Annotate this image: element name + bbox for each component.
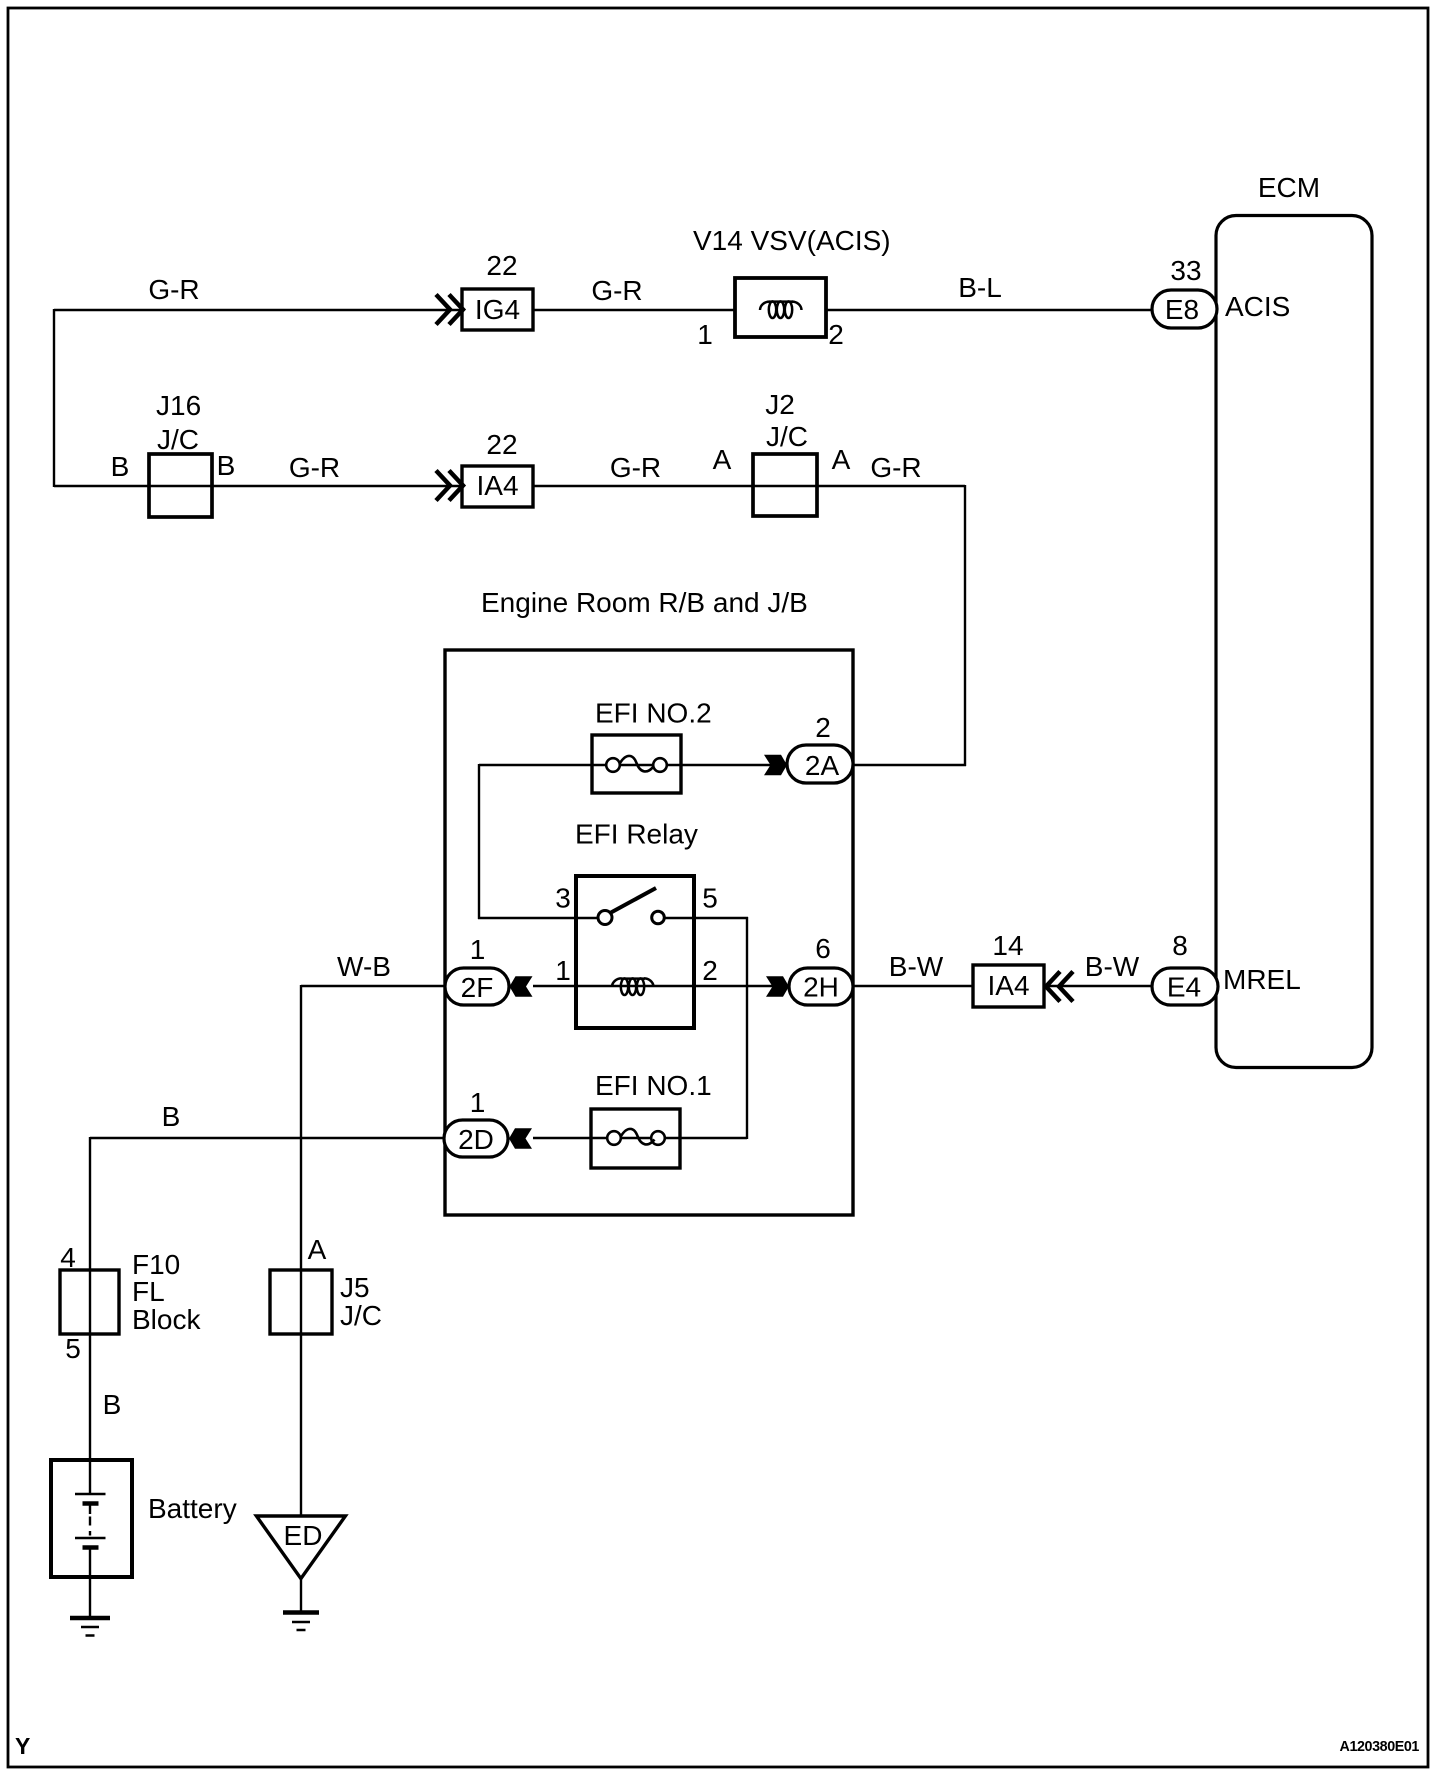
svg-text:EFI NO.2: EFI NO.2 bbox=[595, 698, 712, 729]
svg-text:G-R: G-R bbox=[591, 275, 642, 306]
ground below battery bbox=[70, 1618, 110, 1636]
relay coil bbox=[612, 978, 654, 995]
svg-text:1: 1 bbox=[555, 955, 571, 986]
svg-text:B: B bbox=[103, 1389, 122, 1420]
svg-text:Y: Y bbox=[15, 1733, 30, 1759]
solenoid V14 VSV(ACIS) box bbox=[735, 278, 826, 337]
svg-text:2D: 2D bbox=[458, 1124, 494, 1155]
relay contact right bbox=[652, 911, 665, 924]
wire left riser between top rows bbox=[53, 309, 55, 487]
wire G-R top row from left riser to IG4 bbox=[54, 309, 462, 311]
svg-text:EFI NO.1: EFI NO.1 bbox=[595, 1070, 712, 1101]
wire relay pin 5 out bbox=[664, 917, 748, 919]
wire into relay pin 3 bbox=[478, 917, 598, 919]
relay switch lever bbox=[611, 888, 656, 913]
ground triangle ED bbox=[256, 1516, 345, 1579]
junction J16 J/C box bbox=[149, 454, 212, 517]
connector IA4 (14) box right bbox=[973, 965, 1044, 1007]
wire EFI NO.1 fuse row bbox=[533, 1137, 747, 1139]
battery internal wire bottom bbox=[89, 1548, 91, 1619]
wire 2A to riser bbox=[850, 764, 966, 766]
ground below ED bbox=[283, 1613, 319, 1631]
svg-text:B-L: B-L bbox=[958, 272, 1002, 303]
svg-text:2H: 2H bbox=[803, 972, 839, 1003]
svg-text:2: 2 bbox=[828, 319, 844, 350]
svg-text:V14 VSV(ACIS): V14 VSV(ACIS) bbox=[693, 225, 891, 256]
svg-text:1: 1 bbox=[470, 934, 486, 965]
svg-text:8: 8 bbox=[1172, 930, 1188, 961]
arrow into 2F bbox=[510, 976, 533, 997]
svg-text:E8: E8 bbox=[1165, 294, 1199, 325]
wire W-B 2F to J5 riser bbox=[301, 985, 445, 987]
wire riser through F10 to battery bbox=[89, 1137, 91, 1460]
svg-text:J/C: J/C bbox=[157, 424, 199, 455]
chevron arrows out of IA4 bbox=[1046, 972, 1073, 1002]
svg-text:J/C: J/C bbox=[340, 1300, 382, 1331]
connector 2F oval pin 1 bbox=[445, 968, 509, 1005]
svg-text:4: 4 bbox=[60, 1242, 76, 1273]
svg-text:J16: J16 bbox=[156, 390, 201, 421]
svg-text:ACIS: ACIS bbox=[1225, 291, 1290, 322]
svg-text:A120380E01: A120380E01 bbox=[1340, 1739, 1420, 1755]
svg-text:A: A bbox=[308, 1234, 327, 1265]
wire row2 from riser through J16 to IA4 bbox=[54, 485, 462, 487]
connector E8 oval pin 33 bbox=[1152, 290, 1217, 328]
svg-text:33: 33 bbox=[1170, 255, 1201, 286]
svg-text:ECM: ECM bbox=[1258, 172, 1320, 203]
svg-text:22: 22 bbox=[486, 250, 517, 281]
chevron arrows into IA4 bbox=[436, 471, 463, 501]
svg-text:A: A bbox=[713, 444, 732, 475]
wire B 2D to F10 riser bbox=[90, 1137, 445, 1139]
fuse EFI NO.2 element bbox=[606, 756, 667, 772]
svg-text:G-R: G-R bbox=[870, 452, 921, 483]
svg-text:E4: E4 bbox=[1167, 972, 1201, 1003]
svg-text:J5: J5 bbox=[340, 1272, 370, 1303]
svg-text:B-W: B-W bbox=[889, 951, 944, 982]
svg-text:22: 22 bbox=[486, 429, 517, 460]
wire riser through J5 to ED bbox=[300, 985, 302, 1516]
wire riser pin5 down to EFI NO.1 row bbox=[746, 917, 748, 1139]
connector IA4 (22) box row2 bbox=[462, 466, 533, 507]
battery internal wire top bbox=[89, 1460, 91, 1494]
battery cell 2 short plate bbox=[83, 1545, 99, 1550]
connector E4 oval pin 8 bbox=[1152, 968, 1218, 1005]
Engine Room R/B and J/B box bbox=[445, 650, 853, 1215]
wire IA4 to E4 B-W bbox=[1044, 985, 1152, 987]
battery cell 2 long plate bbox=[75, 1537, 106, 1539]
svg-text:Battery: Battery bbox=[148, 1493, 237, 1524]
svg-text:3: 3 bbox=[555, 883, 571, 914]
svg-text:B: B bbox=[217, 450, 236, 481]
svg-text:B: B bbox=[162, 1101, 181, 1132]
svg-text:B: B bbox=[111, 451, 130, 482]
wire IG4 to VSV bbox=[533, 309, 735, 311]
battery box bbox=[51, 1460, 132, 1577]
svg-text:W-B: W-B bbox=[337, 951, 391, 982]
svg-text:Block: Block bbox=[132, 1304, 201, 1335]
svg-text:EFI Relay: EFI Relay bbox=[575, 819, 698, 850]
wire 2H to IA4 B-W bbox=[850, 985, 973, 987]
junction J2 J/C box bbox=[753, 454, 817, 516]
svg-text:IA4: IA4 bbox=[987, 970, 1029, 1001]
svg-text:6: 6 bbox=[815, 933, 831, 964]
junction J5 J/C box bbox=[270, 1270, 332, 1334]
svg-text:2A: 2A bbox=[805, 750, 840, 781]
arrow into 2H bbox=[766, 976, 789, 997]
chevron arrows into IG4 bbox=[436, 295, 463, 325]
arrow into 2D bbox=[509, 1128, 532, 1149]
wire B-L VSV to E8 bbox=[826, 309, 1152, 311]
VSV coil bbox=[760, 301, 802, 318]
fuse EFI NO.1 box bbox=[591, 1109, 680, 1168]
fuse EFI NO.1 element bbox=[607, 1129, 665, 1145]
battery cell 1 long plate bbox=[75, 1493, 106, 1495]
connector 2H oval pin 6 bbox=[789, 968, 853, 1005]
svg-text:Engine Room R/B and J/B: Engine Room R/B and J/B bbox=[481, 587, 808, 618]
svg-text:G-R: G-R bbox=[610, 452, 661, 483]
svg-text:G-R: G-R bbox=[289, 452, 340, 483]
svg-text:FL: FL bbox=[132, 1276, 165, 1307]
wire riser G-R down to 2A row bbox=[964, 485, 966, 766]
svg-text:1: 1 bbox=[470, 1087, 486, 1118]
svg-text:IA4: IA4 bbox=[476, 470, 518, 501]
wire IA4 through J2 toward riser bbox=[532, 485, 965, 487]
battery dashed link bbox=[89, 1517, 91, 1536]
connector IG4 (22) box bbox=[462, 289, 533, 330]
svg-text:2: 2 bbox=[702, 955, 718, 986]
svg-text:1: 1 bbox=[697, 319, 713, 350]
relay EFI Relay box bbox=[576, 876, 694, 1028]
svg-text:B-W: B-W bbox=[1085, 951, 1140, 982]
wire EFI NO.2 fuse row bbox=[479, 764, 787, 766]
svg-text:5: 5 bbox=[702, 883, 718, 914]
svg-text:14: 14 bbox=[992, 930, 1023, 961]
connector 2D oval pin 1 bbox=[444, 1120, 508, 1157]
relay contact left bbox=[598, 911, 612, 925]
svg-text:G-R: G-R bbox=[148, 274, 199, 305]
svg-text:MREL: MREL bbox=[1223, 964, 1301, 995]
svg-text:IG4: IG4 bbox=[475, 294, 520, 325]
svg-text:J2: J2 bbox=[765, 389, 795, 420]
svg-text:ED: ED bbox=[284, 1520, 323, 1551]
battery cell stub bbox=[89, 1504, 91, 1515]
svg-text:J/C: J/C bbox=[766, 421, 808, 452]
fuse block F10 box bbox=[60, 1270, 119, 1334]
wire riser fuse2 to relay pin 3 bbox=[478, 764, 480, 919]
ECM U1 box bbox=[1216, 216, 1372, 1068]
wire relay coil row pin1-pin2 bbox=[533, 985, 787, 987]
svg-text:5: 5 bbox=[65, 1333, 81, 1364]
arrow into 2A bbox=[764, 755, 787, 776]
svg-text:2: 2 bbox=[815, 712, 831, 743]
fuse EFI NO.2 box bbox=[592, 735, 681, 793]
wire ED to ground bbox=[300, 1578, 302, 1613]
battery cell 1 short plate bbox=[83, 1501, 99, 1506]
svg-text:A: A bbox=[832, 444, 851, 475]
svg-text:2F: 2F bbox=[461, 972, 494, 1003]
connector 2A oval pin 2 bbox=[787, 745, 853, 783]
